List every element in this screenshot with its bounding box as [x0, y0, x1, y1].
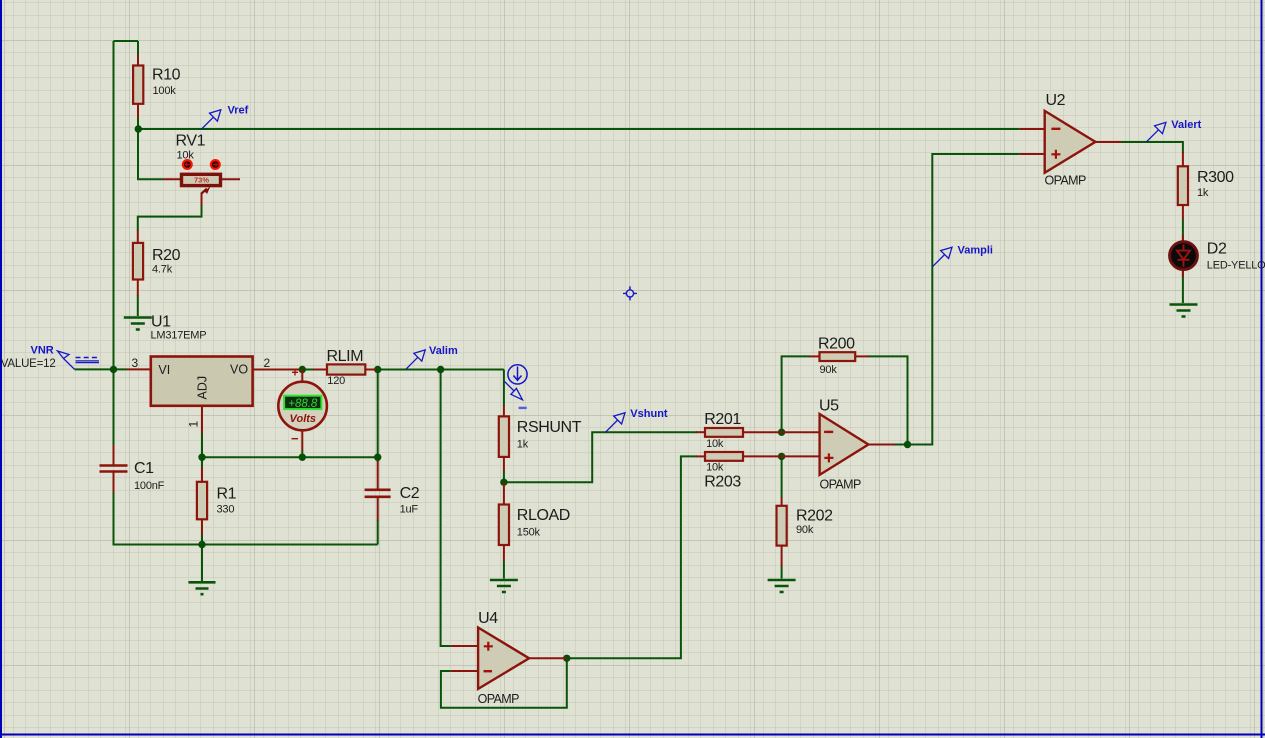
svg-text:LED-YELLOW: LED-YELLOW [1207, 260, 1265, 272]
sheet border right [1261, 0, 1263, 738]
svg-text:1k: 1k [517, 439, 529, 451]
junction node U1 VO / voltmeter [299, 366, 306, 373]
junction node U5 minus input [778, 429, 785, 436]
wire corner down to RSHUNT [503, 370, 505, 407]
svg-text:R20: R20 [152, 247, 181, 264]
svg-text:OPAMP: OPAMP [478, 692, 519, 706]
junction node C2 top [374, 454, 381, 461]
wire VNR to U1 VI [75, 368, 128, 370]
wire R10 bottom to Vref node [137, 117, 139, 129]
svg-text:1uF: 1uF [400, 504, 419, 516]
svg-text:R200: R200 [818, 335, 855, 352]
svg-text:Vshunt: Vshunt [630, 408, 668, 420]
junction node U5 output [904, 441, 911, 448]
capacitor C1 [100, 445, 165, 493]
junction node RLIM out / C2 [374, 366, 381, 373]
svg-text:R1: R1 [217, 486, 237, 503]
junction node R1 bottom rail [198, 541, 205, 548]
potentiometer RV1 [163, 133, 240, 206]
resistor R202 [777, 498, 834, 568]
svg-text:120: 120 [327, 375, 345, 387]
wire left rail top [114, 41, 139, 446]
svg-text:+: + [292, 366, 299, 380]
resistor R203 [696, 452, 781, 491]
junction node U4 output [563, 655, 570, 662]
svg-text:VO: VO [230, 363, 248, 377]
svg-text:73%: 73% [194, 176, 209, 185]
sheet border bottom [0, 734, 1265, 736]
wire R10 top lead drop [137, 41, 139, 55]
wire U2 out to R300 [1121, 142, 1183, 153]
ground under R1 [189, 582, 216, 594]
svg-text:4.7k: 4.7k [152, 264, 173, 276]
svg-text:U5: U5 [819, 398, 839, 415]
svg-text:Valert: Valert [1171, 119, 1201, 131]
svg-text:LM317EMP: LM317EMP [151, 330, 207, 342]
ground under R202 [768, 580, 796, 592]
junction node voltmeter minus [299, 454, 306, 461]
svg-text:RSHUNT: RSHUNT [517, 419, 582, 436]
source VNR [1, 345, 99, 371]
svg-text:ADJ: ADJ [196, 376, 210, 400]
resistor R300 [1178, 152, 1234, 220]
svg-text:C1: C1 [134, 460, 154, 477]
wire R200 branch up left [782, 356, 810, 432]
wire R201 node to U5 minus [780, 431, 783, 433]
svg-text:1: 1 [187, 421, 201, 428]
svg-text:90k: 90k [796, 524, 814, 536]
ground under R20 [124, 318, 152, 330]
regulator U1 LM317EMP [127, 314, 300, 434]
wire R202 bottom to ground [781, 567, 783, 579]
junction node Vref at R10 [135, 125, 142, 132]
svg-text:R300: R300 [1197, 169, 1234, 186]
probe Vampli [933, 244, 993, 266]
svg-text:150k: 150k [517, 527, 541, 539]
svg-text:VALUE=12: VALUE=12 [1, 358, 56, 370]
junction node VNR at rail [110, 366, 117, 373]
current probe on RSHUNT branch [504, 365, 527, 408]
junction node RSHUNT bottom [500, 479, 507, 486]
svg-text:100nF: 100nF [134, 480, 165, 492]
wire RLIM right to current branch corner [375, 369, 504, 371]
wire R1 top lead [201, 457, 203, 467]
junction node U5 plus input [778, 453, 785, 460]
wire C2 branch vertical [377, 370, 379, 463]
svg-text:OPAMP: OPAMP [820, 477, 861, 491]
ground under D2 [1170, 305, 1198, 317]
resistor R201 [696, 411, 781, 450]
resistor R20 [133, 230, 181, 296]
resistor RLIM [313, 348, 376, 387]
resistor R200 [809, 335, 868, 375]
wire Vref to RV1 left [138, 129, 163, 179]
junction node ADJ / R1 [198, 454, 205, 461]
svg-text:330: 330 [217, 504, 235, 516]
svg-text:−: − [291, 431, 299, 446]
wire RSHUNT bottom node [503, 471, 505, 482]
svg-text:R201: R201 [704, 411, 741, 428]
svg-text:VI: VI [158, 363, 170, 377]
svg-text:10k: 10k [706, 462, 724, 474]
svg-text:R10: R10 [152, 67, 181, 84]
voltmeter [278, 366, 327, 451]
svg-text:C2: C2 [400, 485, 420, 502]
svg-text:OPAMP: OPAMP [1045, 174, 1086, 188]
wire R20 bottom to ground [137, 295, 139, 316]
wire RLOAD bottom to ground [503, 561, 505, 579]
svg-text:90k: 90k [820, 364, 838, 376]
svg-text:Volts: Volts [290, 413, 317, 425]
wire U4 output to R203 branch [567, 456, 697, 658]
wire D2 to ground [1182, 271, 1184, 303]
wire R300 to D2 [1182, 219, 1184, 241]
resistor RLOAD [499, 482, 570, 561]
wire voltmeter bottom [301, 450, 303, 457]
svg-text:+88.8: +88.8 [288, 398, 318, 410]
wire C2 bottom to rail [377, 520, 379, 545]
wire RV1 wiper to R20 [138, 205, 202, 231]
op-amp U2 [1020, 92, 1122, 188]
svg-text:2: 2 [264, 356, 271, 370]
probe Valim [406, 345, 458, 369]
wire net Vref horizontal [138, 128, 1020, 130]
svg-text:RV1: RV1 [176, 133, 206, 150]
wire net ADJ horizontal [202, 433, 378, 457]
probe Valert [1147, 119, 1202, 142]
op-amp U4 [451, 610, 567, 706]
wire left rail below C1 to bottom rail [114, 492, 378, 545]
svg-text:RLOAD: RLOAD [517, 507, 570, 524]
resistor RSHUNT [499, 406, 582, 472]
wire R202 branch down [781, 456, 783, 498]
probe Vshunt [606, 408, 668, 432]
junction node Valim branch [437, 366, 444, 373]
svg-text:Vref: Vref [228, 105, 249, 117]
svg-text:U2: U2 [1046, 92, 1066, 109]
wire R200 right to U5 out node [868, 356, 908, 444]
origin cursor marker [623, 286, 637, 300]
ground under RLOAD [490, 580, 518, 592]
LED D2 [1170, 235, 1265, 277]
svg-text:R203: R203 [704, 474, 741, 491]
svg-text:10k: 10k [706, 438, 724, 450]
probe Vref [201, 105, 248, 130]
svg-text:D2: D2 [1207, 241, 1227, 258]
wire U1 VO to RLIM [299, 369, 314, 371]
sheet border left [0, 0, 2, 738]
op-amp U5 [782, 398, 895, 492]
svg-text:RLIM: RLIM [327, 348, 364, 365]
resistor R10 [133, 55, 181, 118]
wire U4 feedback loop [441, 658, 567, 708]
svg-text:R202: R202 [796, 508, 833, 525]
svg-text:U4: U4 [478, 610, 498, 627]
svg-text:Valim: Valim [429, 345, 458, 357]
svg-text:U1: U1 [151, 314, 171, 331]
wire U5 out to U2 plus [894, 154, 1020, 445]
resistor R1 [197, 467, 237, 535]
svg-text:3: 3 [132, 356, 139, 370]
wire net Vshunt to R201 [504, 432, 697, 482]
svg-text:100k: 100k [153, 85, 177, 97]
wire R1 bottom to ground [201, 534, 203, 581]
svg-text:Vampli: Vampli [958, 244, 993, 256]
svg-text:1k: 1k [1197, 187, 1209, 199]
svg-text:VNR: VNR [31, 345, 54, 357]
capacitor C2 [365, 461, 420, 521]
wire Valim branch to U4 plus [441, 370, 451, 647]
